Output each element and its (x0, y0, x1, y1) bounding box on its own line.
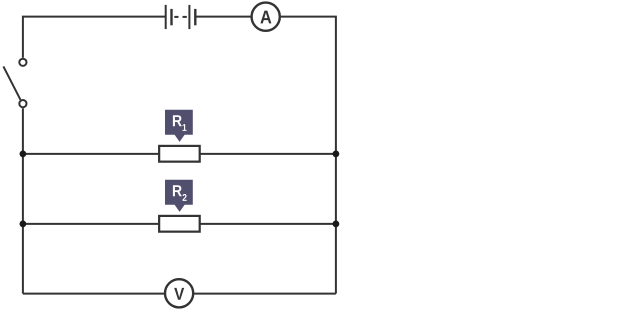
wire: battery to top-left corner down to switch (23, 17, 166, 58)
battery B1 (two cells with dashed gap) (166, 5, 196, 29)
label R1 tag (165, 110, 193, 142)
switch S1 (open) (3, 59, 26, 107)
node: junction right R1 (333, 151, 340, 158)
wire: R1 branch right (199, 153, 336, 155)
wire: R2 branch left (23, 223, 160, 225)
wire: R1 branch left (23, 153, 160, 155)
resistor R1 (159, 146, 200, 162)
node: junction right R2 (333, 221, 340, 228)
wire: voltmeter to bottom-right corner (193, 293, 336, 295)
node: junction left R2 (20, 221, 27, 228)
wire: battery to ammeter (196, 16, 251, 18)
voltmeter V (165, 279, 193, 307)
node: junction left R1 (20, 151, 27, 158)
label R2 tag (165, 180, 193, 212)
resistor R2 (159, 216, 200, 232)
ammeter A (252, 3, 280, 31)
wire: ammeter to top-right corner down right side (280, 17, 336, 294)
wire: R2 branch right (199, 223, 336, 225)
wire: left side below switch (22, 108, 24, 293)
wire: bottom left to voltmeter (23, 293, 165, 295)
